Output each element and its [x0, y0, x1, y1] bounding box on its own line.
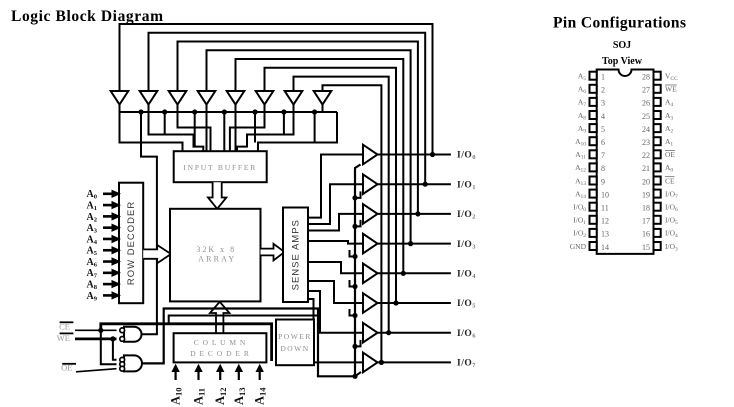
- svg-text:13: 13: [601, 230, 609, 239]
- overline CE: [60, 321, 74, 323]
- pin 26: [654, 98, 661, 106]
- wire: sense amp output 7 to output buffer 7: [308, 299, 363, 362]
- wire: power down feed from CE branch: [169, 316, 318, 324]
- svg-text:4: 4: [601, 112, 605, 121]
- junction enable rail 5: [352, 344, 357, 349]
- wire: I/O1 feedback to input buffer 1: [149, 33, 426, 184]
- svg-text:3: 3: [601, 99, 605, 108]
- svg-text:INPUT BUFFER: INPUT BUFFER: [183, 163, 257, 172]
- pin 21: [654, 163, 661, 171]
- wire: sense amp output 5 to output buffer 5: [308, 281, 363, 303]
- wire: I/O5 line: [378, 302, 451, 304]
- pin 10: [590, 190, 597, 198]
- junction I/O7: [379, 360, 384, 365]
- svg-text:26: 26: [642, 99, 650, 108]
- pin 27: [654, 85, 661, 93]
- input data buffer triangle 7: [314, 91, 332, 105]
- svg-text:C O L U M N: C O L U M N: [194, 338, 247, 347]
- wire: sense amp output 3 to output buffer 3: [308, 241, 363, 244]
- svg-text:11: 11: [601, 204, 609, 213]
- junction I/O0: [430, 152, 435, 157]
- wire: rail stub 6: [283, 112, 285, 135]
- pin 7: [590, 150, 597, 158]
- pin 15: [654, 242, 661, 250]
- input data buffer triangle 0: [111, 91, 129, 105]
- wire: enable stub 5: [355, 340, 361, 347]
- svg-text:POWER: POWER: [278, 332, 312, 341]
- wire: triangle1 output to input buffer: [120, 112, 183, 151]
- open arrow: column decoder to array: [210, 302, 229, 333]
- junction enable rail corner: [352, 374, 357, 379]
- pin 6: [590, 137, 597, 145]
- svg-text:6: 6: [601, 138, 605, 147]
- svg-text:8: 8: [601, 164, 605, 173]
- wire: I/O2 line: [378, 213, 451, 215]
- output buffer triangle 7: [363, 353, 378, 373]
- svg-text:22: 22: [642, 151, 650, 160]
- svg-text:OE: OE: [665, 150, 675, 159]
- svg-text:18: 18: [642, 204, 650, 213]
- output buffer triangle 5: [363, 293, 378, 313]
- input data buffer triangle 1: [140, 91, 158, 105]
- wire: enable stub 4: [350, 309, 356, 316]
- junction I/O6: [386, 330, 391, 335]
- svg-text:7: 7: [601, 151, 605, 160]
- wire: enable stub 3: [350, 280, 356, 287]
- junction rail dot 1: [138, 109, 143, 114]
- wire: sense amp output 1 to output buffer 1: [308, 184, 363, 224]
- stub triangle 1 to rail: [148, 105, 150, 113]
- junction enable rail 1: [352, 224, 357, 229]
- svg-text:20: 20: [642, 177, 650, 186]
- stub triangle 4 to rail: [235, 105, 237, 113]
- IC package body: [597, 70, 654, 254]
- svg-text:24: 24: [642, 125, 650, 134]
- pin 25: [654, 111, 661, 119]
- pin 1: [590, 72, 597, 80]
- stub triangle 7 to rail: [322, 105, 324, 113]
- svg-text:GND: GND: [570, 242, 587, 251]
- output buffer triangle 0: [363, 145, 378, 165]
- pin 11: [590, 203, 597, 211]
- wire: rail stub 4: [223, 112, 225, 151]
- pin 20: [654, 177, 661, 185]
- input A12 with arrow: [219, 370, 221, 380]
- wire: I/O7 feedback to input buffer 7: [323, 85, 382, 362]
- svg-text:27: 27: [642, 86, 650, 95]
- input A11 with arrow: [197, 370, 199, 380]
- pin 28: [654, 72, 661, 80]
- wire: enable stub 2: [350, 250, 356, 257]
- row decoder box: [119, 183, 143, 304]
- svg-text:23: 23: [642, 138, 650, 147]
- pin 22: [654, 150, 661, 158]
- svg-text:9: 9: [601, 177, 605, 186]
- junction WE branch: [110, 336, 115, 341]
- svg-text:DOWN: DOWN: [280, 344, 309, 353]
- input A14 with arrow: [259, 370, 261, 380]
- gate G2 (WE,CE,OE) output control: [124, 355, 142, 371]
- junction rail dot 3: [192, 109, 197, 114]
- junction rail dot 4: [222, 109, 227, 114]
- input data buffer triangle 3: [198, 91, 216, 105]
- svg-text:17: 17: [642, 217, 650, 226]
- wire: rail stub 5: [254, 112, 256, 143]
- svg-text:19: 19: [642, 190, 650, 199]
- junction I/O2: [415, 211, 420, 216]
- svg-text:12: 12: [601, 217, 609, 226]
- wire: triangle2 output to input buffer: [149, 112, 204, 151]
- wire: rail stub 7: [314, 112, 316, 143]
- svg-text:32K x 8: 32K x 8: [196, 245, 236, 254]
- wire: I/O6 line: [378, 332, 451, 334]
- overline WE: [60, 332, 74, 334]
- wire: triangle8 output to input buffer: [258, 112, 337, 151]
- svg-text:CE: CE: [665, 176, 675, 185]
- wire: triangle6 output to input buffer: [230, 112, 265, 151]
- wire: write enable from CE/WE gate to input rail: [141, 112, 157, 334]
- svg-text:D E C O D E R: D E C O D E R: [190, 349, 250, 358]
- pin 18: [654, 203, 661, 211]
- junction CE branch: [98, 328, 103, 333]
- wire: rail stub 2: [164, 112, 166, 135]
- pin 9: [590, 177, 597, 185]
- svg-text:15: 15: [642, 243, 650, 252]
- svg-text:Pin Configurations: Pin Configurations: [553, 15, 686, 32]
- overline OE: [62, 363, 76, 365]
- pin 16: [654, 229, 661, 237]
- pin 12: [590, 216, 597, 224]
- wire: I/O7 line: [378, 361, 451, 363]
- junction rail dot 7: [312, 109, 317, 114]
- junction I/O4: [401, 271, 406, 276]
- wire: triangle3 output to input buffer: [178, 112, 211, 151]
- svg-text:ROW DECODER: ROW DECODER: [126, 201, 137, 285]
- output buffer triangle 2: [363, 204, 378, 224]
- input buffer box U1: [174, 151, 267, 182]
- wire: sense amp output 0 to output buffer 0: [308, 155, 363, 218]
- svg-text:WE: WE: [665, 85, 677, 94]
- svg-text:16: 16: [642, 230, 650, 239]
- svg-text:5: 5: [601, 125, 605, 134]
- svg-text:ARRAY: ARRAY: [198, 255, 236, 264]
- output buffer triangle 3: [363, 234, 378, 254]
- wire: I/O0 feedback to input buffer 0: [120, 24, 433, 155]
- junction enable rail 3: [352, 284, 357, 289]
- input data buffer triangle 2: [169, 91, 187, 105]
- wire: I/O4 feedback to input buffer 4: [236, 59, 404, 273]
- wire: CE thick branch to power down: [101, 324, 272, 361]
- pin 14: [590, 242, 597, 250]
- stub triangle 0 to rail: [119, 105, 121, 113]
- stub triangle 3 to rail: [206, 105, 208, 113]
- junction I/O1: [423, 182, 428, 187]
- sense amps box: [283, 208, 308, 303]
- input data buffer triangle 4: [227, 91, 245, 105]
- svg-text:28: 28: [642, 73, 650, 82]
- svg-text:SOJ: SOJ: [613, 40, 631, 51]
- svg-text:25: 25: [642, 112, 650, 121]
- pin 13: [590, 229, 597, 237]
- wire: triangle7 output to input buffer: [237, 112, 294, 151]
- wire: enable stub 8: [355, 372, 361, 376]
- wire: sense amp output 2 to output buffer 2: [308, 214, 363, 231]
- junction rail dot 5: [252, 109, 257, 114]
- pin 17: [654, 216, 661, 224]
- wire: CE branch to OE gate: [101, 330, 117, 364]
- input A10 with arrow: [175, 370, 177, 380]
- output buffer triangle 1: [363, 174, 378, 194]
- 32K x 8 array box: [170, 209, 261, 302]
- junction enable rail 4: [352, 313, 357, 318]
- wire: triangle5 output to input buffer: [235, 112, 237, 151]
- junction rail dot 2: [162, 109, 167, 114]
- junction rail dot 6: [281, 109, 286, 114]
- pin 19: [654, 190, 661, 198]
- wire: triangle4 output to input buffer: [206, 112, 208, 151]
- wire: enable stub 1: [355, 220, 361, 227]
- open arrow: array to sense amps: [261, 244, 285, 261]
- junction enable rail 2: [352, 254, 357, 259]
- wire: input buffer rail: [119, 111, 337, 113]
- pin 3: [590, 98, 597, 106]
- svg-text:1: 1: [601, 73, 605, 82]
- wire: enable stub 0: [355, 191, 361, 198]
- open arrow: input buffer to array: [208, 182, 226, 209]
- svg-text:21: 21: [642, 164, 650, 173]
- pin 23: [654, 137, 661, 145]
- power down box: [276, 320, 314, 366]
- gate G1 (CE,WE) write control: [124, 327, 142, 342]
- junction I/O5: [393, 300, 398, 305]
- stub triangle 2 to rail: [177, 105, 179, 113]
- output buffer triangle 4: [363, 264, 378, 284]
- pin 2: [590, 85, 597, 93]
- wire: CE input: [75, 329, 117, 331]
- wire: sense amp output 6 to output buffer 6: [308, 291, 363, 333]
- wire: I/O4 line: [378, 272, 451, 274]
- output buffer triangle 6: [363, 323, 378, 343]
- wire: I/O6 feedback to input buffer 6: [294, 77, 389, 333]
- wire: WE input: [75, 337, 117, 340]
- wire: I/O3 feedback to input buffer 3: [207, 50, 411, 243]
- svg-text:10: 10: [601, 190, 609, 199]
- svg-text:14: 14: [601, 243, 609, 252]
- input A13 with arrow: [238, 370, 240, 380]
- wire: I/O5 feedback to input buffer 5: [265, 68, 397, 303]
- pin 24: [654, 124, 661, 132]
- wire: rail stub 3: [194, 112, 196, 147]
- pin 5: [590, 124, 597, 132]
- input data buffer triangle 5: [256, 91, 274, 105]
- wire: I/O2 feedback to input buffer 2: [178, 42, 418, 214]
- wire: output enable rail from G2 to output buffers: [142, 165, 361, 377]
- svg-text:2: 2: [601, 86, 605, 95]
- wire: sense amp output 4 to output buffer 4: [308, 262, 363, 273]
- input data buffer triangle 6: [285, 91, 303, 105]
- svg-text:Logic Block Diagram: Logic Block Diagram: [11, 8, 164, 25]
- wire: OE input: [76, 369, 117, 372]
- wire: I/O0 line: [378, 154, 451, 156]
- open arrow: row decoder to array: [143, 245, 171, 263]
- junction I/O3: [408, 241, 413, 246]
- junction enable rail 0: [352, 195, 357, 200]
- pin 4: [590, 111, 597, 119]
- svg-text:SENSE AMPS: SENSE AMPS: [291, 219, 302, 290]
- column decoder box: [174, 333, 267, 362]
- wire: WE branch to OE gate: [113, 339, 117, 360]
- svg-text:Top View: Top View: [602, 56, 643, 67]
- wire: I/O3 line: [378, 243, 451, 245]
- wire: I/O1 line: [378, 183, 451, 185]
- stub triangle 5 to rail: [264, 105, 266, 113]
- stub triangle 6 to rail: [293, 105, 295, 113]
- pin 8: [590, 163, 597, 171]
